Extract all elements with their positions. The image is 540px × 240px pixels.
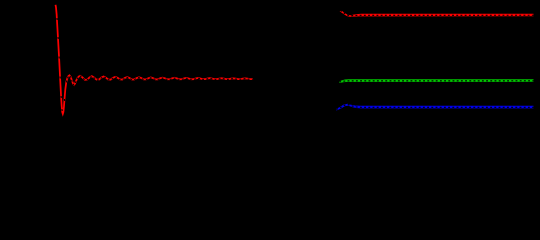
left plot: black dashed reference overlay (oscillation and tail) xyxy=(67,76,253,86)
black dash notch on spike at y=97 xyxy=(60,96,62,98)
right plot: black dash overlay on red dashed line xyxy=(340,10,533,15)
right plot: black dash overlay on green dashed line xyxy=(339,81,533,82)
right plot: green solid line xyxy=(339,80,533,82)
right plot: green dashed partner line xyxy=(339,81,533,82)
left plot: red response curve (solid) xyxy=(56,5,254,114)
right plot: blue solid line xyxy=(336,105,533,110)
right plot: black dash overlay on blue dashed line xyxy=(336,105,533,110)
black dash notch on spike at y=57.5 xyxy=(58,57,60,59)
right plot: red dashed partner line xyxy=(340,11,533,16)
black dash notch on spike at y=110 xyxy=(61,109,63,111)
right plot: blue dashed partner line xyxy=(336,105,533,110)
right plot: red solid line xyxy=(340,11,533,16)
black dash notch on spike at y=81.5 xyxy=(66,81,68,83)
black dash notch on spike at y=38 xyxy=(57,37,59,39)
black dash notch on spike at y=19 xyxy=(56,18,58,20)
black dash notch on spike at y=100 xyxy=(63,99,65,101)
black dash notch on spike at y=77.5 xyxy=(59,77,61,79)
